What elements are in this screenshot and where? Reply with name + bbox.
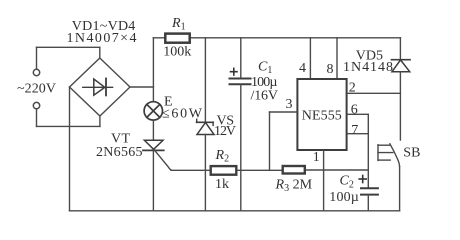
svg-text:3: 3	[286, 97, 293, 112]
svg-text:SB: SB	[403, 145, 420, 160]
svg-text:1N4148: 1N4148	[343, 60, 393, 75]
svg-text:12V: 12V	[214, 124, 236, 139]
svg-text:8: 8	[327, 62, 334, 77]
svg-text:6: 6	[351, 102, 358, 117]
svg-text:2: 2	[349, 81, 356, 96]
svg-text:4: 4	[299, 61, 306, 76]
svg-text:C2: C2	[340, 173, 354, 190]
svg-text:2N6565: 2N6565	[96, 145, 143, 160]
svg-text:C1: C1	[258, 59, 272, 76]
svg-text:~220V: ~220V	[17, 82, 56, 97]
svg-text:R3 2M: R3 2M	[275, 178, 313, 195]
svg-text:1: 1	[313, 150, 320, 165]
svg-text:/16V: /16V	[251, 89, 279, 104]
svg-text:NE555: NE555	[302, 109, 342, 124]
svg-text:7: 7	[351, 123, 358, 138]
svg-text:100k: 100k	[163, 45, 191, 60]
svg-text:1N4007×4: 1N4007×4	[67, 31, 137, 46]
svg-text:100µ: 100µ	[329, 190, 359, 205]
svg-text:R2: R2	[215, 148, 230, 165]
svg-text:1k: 1k	[215, 177, 229, 192]
svg-text:R1: R1	[171, 16, 186, 33]
svg-text:≤60W: ≤60W	[162, 107, 203, 122]
